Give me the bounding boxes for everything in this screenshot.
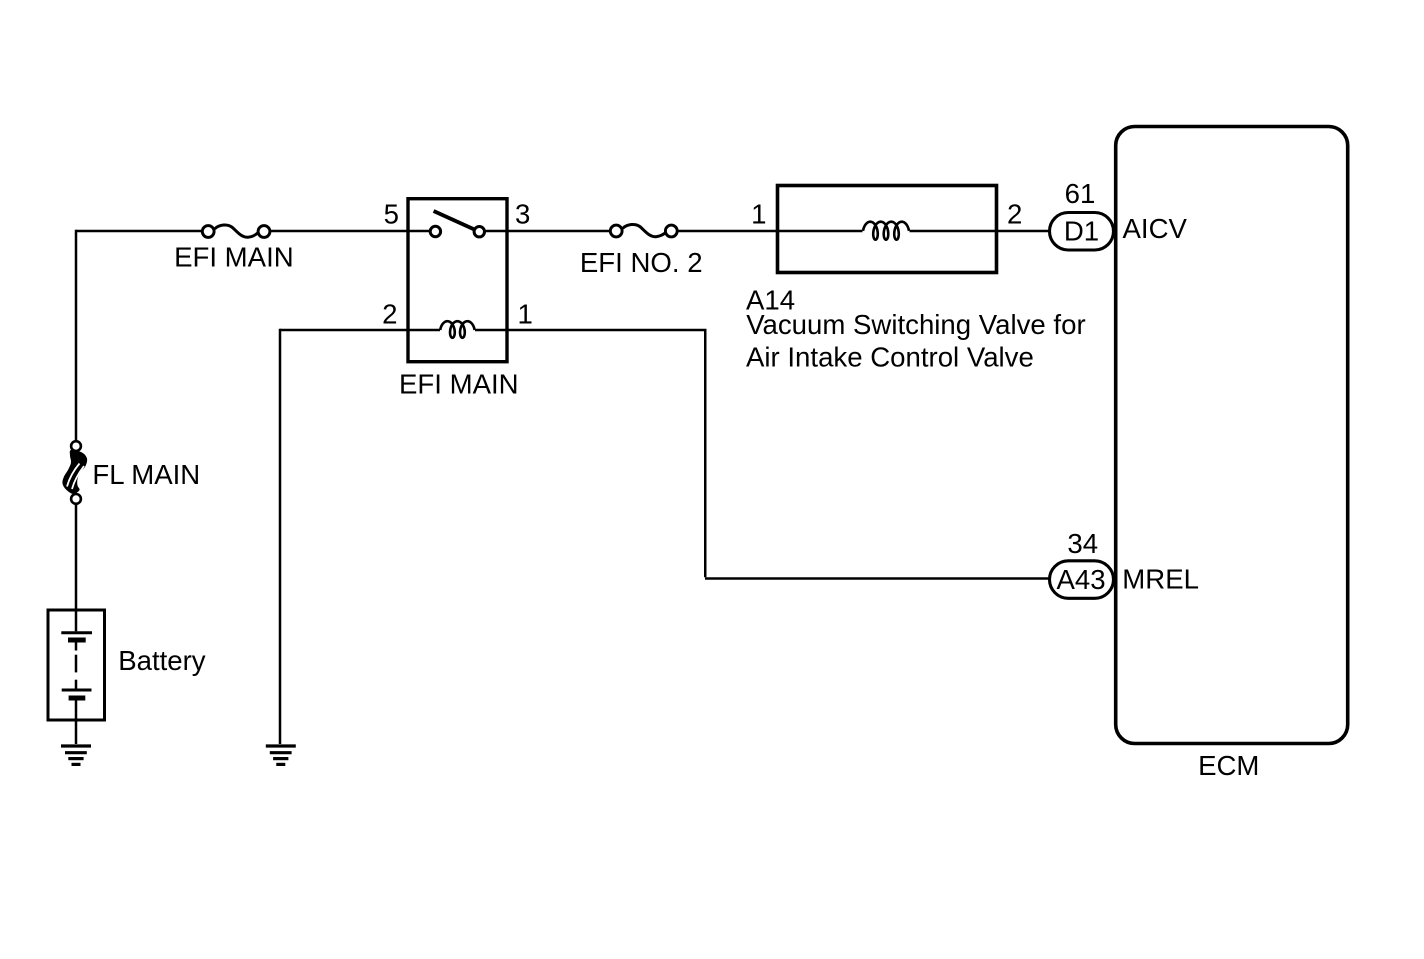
VSV A14 box — [778, 186, 997, 273]
relay switch contact right — [474, 227, 484, 237]
fusible link FL MAIN — [62, 441, 87, 504]
svg-text:2: 2 — [1007, 199, 1022, 230]
wire battery feed top horizontal — [76, 230, 201, 233]
wire relay pin 2 to left corner — [280, 329, 440, 332]
battery internals — [61, 610, 92, 720]
wire VSV pin 2 to ECM D1 — [910, 230, 1050, 233]
fuse EFI NO. 2 — [610, 225, 677, 237]
wire ground drop from pin 2 corner — [279, 329, 282, 744]
svg-text:A43: A43 — [1056, 564, 1105, 595]
wire FL MAIN to battery — [75, 504, 78, 610]
wire battery to ground — [75, 720, 78, 744]
svg-text:1: 1 — [518, 299, 533, 330]
fuse EFI MAIN — [202, 225, 270, 237]
svg-text:34: 34 — [1067, 528, 1098, 559]
svg-text:EFI MAIN: EFI MAIN — [399, 369, 519, 400]
connector D1 stadium — [1050, 213, 1114, 251]
relay EFI MAIN box — [408, 199, 507, 362]
svg-text:Air Intake Control Valve: Air Intake Control Valve — [746, 342, 1034, 373]
ground (relay coil) — [266, 746, 296, 764]
svg-text:ECM: ECM — [1198, 750, 1259, 781]
wire relay pin 1 to MREL corner — [475, 330, 705, 577]
svg-text:61: 61 — [1065, 178, 1096, 209]
battery box — [48, 610, 105, 720]
svg-text:3: 3 — [515, 199, 530, 230]
svg-text:EFI NO. 2: EFI NO. 2 — [580, 247, 703, 278]
relay switch blade — [434, 211, 476, 230]
svg-text:Battery: Battery — [118, 645, 206, 676]
svg-text:AICV: AICV — [1123, 213, 1188, 244]
wire left vertical from top corner to FL MAIN — [75, 230, 78, 440]
wire relay pin 3 to fuse EFI NO.2 — [485, 230, 611, 233]
svg-text:5: 5 — [384, 199, 399, 230]
VSV solenoid coil — [863, 222, 909, 240]
svg-text:EFI MAIN: EFI MAIN — [174, 242, 294, 273]
svg-text:MREL: MREL — [1122, 564, 1199, 595]
wire fuse to relay pin 5 contact — [270, 230, 429, 233]
ground (battery) — [61, 746, 91, 764]
connector A43 stadium — [1050, 561, 1114, 599]
svg-text:D1: D1 — [1064, 216, 1099, 247]
wire fuse EFI NO.2 to VSV coil — [677, 230, 862, 233]
svg-text:Vacuum Switching Valve for: Vacuum Switching Valve for — [746, 309, 1085, 340]
svg-text:2: 2 — [382, 299, 397, 330]
svg-text:1: 1 — [751, 199, 766, 230]
svg-text:FL MAIN: FL MAIN — [92, 459, 200, 490]
relay switch contact left — [430, 226, 440, 236]
wire MREL horizontal to A43 — [705, 577, 1049, 580]
ECM box — [1116, 127, 1348, 744]
relay coil — [440, 321, 474, 338]
